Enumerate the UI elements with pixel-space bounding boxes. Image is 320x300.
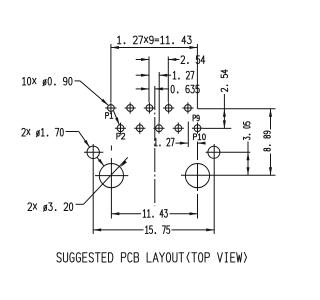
label P9 xyxy=(193,115,199,121)
pin hole P10 (0.90 dia) xyxy=(192,123,203,134)
connector vertical centerline (dash-dot) xyxy=(154,86,156,206)
extension line bottom pin row to right xyxy=(203,127,231,129)
pin hole P3 (0.90 dia) xyxy=(125,102,136,113)
vertical centerline of right 3.20 hole xyxy=(197,164,199,191)
dimension 2.54 row spacing (right) xyxy=(223,94,225,128)
extension line from P1 to top dimension xyxy=(110,44,112,102)
dimension 1.27 row offset xyxy=(136,74,149,76)
pin hole P2 (0.90 dia) xyxy=(115,123,126,134)
extension line from P5 xyxy=(148,57,150,103)
dimension 0.635 to centerline xyxy=(136,88,149,90)
value 1.27 offset xyxy=(155,138,174,146)
mounting hole left (3.20 dia) xyxy=(95,164,128,188)
extension line top pin row to right xyxy=(198,108,276,110)
extension line from P6 xyxy=(158,72,160,122)
value 0.635 xyxy=(171,85,199,93)
centerline dash below P10 xyxy=(197,142,199,161)
pin hole P8 (0.90 dia) xyxy=(173,123,184,134)
pin hole P9 (0.90 dia) xyxy=(182,102,193,113)
label 2x 1.70 xyxy=(22,128,63,136)
value 2.54 vertical xyxy=(221,70,228,92)
leader second segment to P2 xyxy=(114,111,120,125)
label 2x 3.20 xyxy=(28,203,73,211)
right 1.70 hole vertical centerline / ext to 15.75 xyxy=(213,144,215,234)
dimension 15.75 boardlock holes xyxy=(93,229,143,231)
pin hole P5 (0.90 dia) xyxy=(144,102,155,113)
left 1.70 hole vertical centerline / ext to 15.75 xyxy=(92,144,94,234)
boardlock hole right (1.70 dia) xyxy=(208,146,220,158)
dimension 1.27 P9-P10 offset xyxy=(176,142,188,144)
mounting hole right (3.20 dia) xyxy=(185,164,209,188)
pin hole P1 (0.90 dia) xyxy=(105,102,116,113)
dimension 2.54 pin pitch xyxy=(136,59,149,61)
label 10x 0.90 xyxy=(22,77,72,85)
dimension 1.27x9=11.43 top xyxy=(111,47,197,49)
label P2 xyxy=(117,133,125,139)
extension line from P7 xyxy=(167,57,169,103)
value 2.54 xyxy=(181,56,205,64)
value 15.75 xyxy=(145,226,169,234)
extension line 1.70 hole row to right xyxy=(206,151,251,153)
leader continuation to left 3.20 hole xyxy=(97,157,104,166)
pin hole P4 (0.90 dia) xyxy=(134,123,145,134)
dimension 8.89 xyxy=(270,109,272,130)
extension line from P10 to top dimension xyxy=(196,44,198,109)
value 1.27 xyxy=(173,71,194,79)
centerline dash below P1 xyxy=(110,146,112,151)
pin hole P6 (0.90 dia) xyxy=(153,123,164,134)
value 1.27x9=11.43 xyxy=(118,36,192,44)
dimension 3.05 xyxy=(247,142,249,176)
label P10 xyxy=(193,134,205,140)
pin hole P7 (0.90 dia) xyxy=(163,102,174,113)
extension line 3.20 hole row to right xyxy=(181,174,276,176)
leader slash through left 3.20 hole xyxy=(84,157,128,204)
extension line below P9 xyxy=(187,122,189,148)
label P1 xyxy=(106,113,113,119)
dimension 11.43 mounting holes xyxy=(111,213,141,215)
boardlock hole left (1.70 dia) xyxy=(84,146,103,158)
value 3.05 xyxy=(244,122,251,140)
vertical centerline of left 3.20 hole / ext to 11.43 xyxy=(110,158,112,219)
value 11.43 xyxy=(143,210,167,218)
value 8.89 xyxy=(264,131,271,151)
title text xyxy=(57,252,247,262)
extension right 3.20 hole to 11.43 dim xyxy=(197,194,199,219)
